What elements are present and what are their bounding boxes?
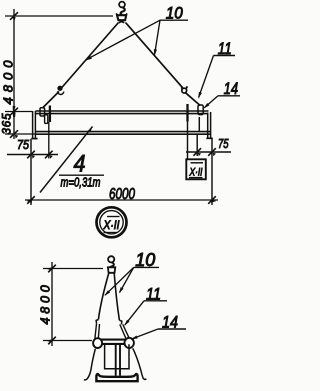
sling 10 right leg lower (top figure) <box>185 92 200 105</box>
sling block horn right <box>126 13 127 15</box>
I-beam section: web <box>115 344 117 376</box>
tick 75 right b <box>208 148 216 156</box>
sling wrap roller right (section) <box>125 338 134 348</box>
section mark tick right (bold) <box>186 104 188 122</box>
lifting lug left <box>40 108 45 116</box>
callout 14 (section): leader <box>131 329 158 339</box>
wire: extension from left lug down <box>48 122 50 159</box>
sling 10 right leg upper (top figure) <box>126 23 184 89</box>
beam bottom flange line upper <box>36 131 212 133</box>
svg-text:75: 75 <box>17 137 30 152</box>
wire: vertical dimension line left <box>13 9 15 139</box>
node: tick at 4800/365 boundary <box>10 108 18 116</box>
callout 10 (section): leader to left leg <box>105 267 134 295</box>
svg-text:4: 4 <box>74 151 86 178</box>
tick 75 right a <box>193 148 201 156</box>
svg-text:X·II: X·II <box>103 218 120 232</box>
svg-text:4800: 4800 <box>39 281 53 324</box>
sling 10 left leg upper (top figure) <box>61 23 119 89</box>
sling free end right (section) <box>133 348 147 379</box>
node: tick 4800 bottom (section) <box>48 337 56 345</box>
callout 14 (top figure): shelf <box>218 95 240 97</box>
crane hook (top figure) <box>121 7 125 14</box>
callout 11 (section): leader <box>125 301 144 325</box>
svg-text:m=0,31т: m=0,31т <box>61 175 101 190</box>
sling strap around web (section) <box>105 344 129 369</box>
callout 10 (top figure): leader to left sling <box>86 20 160 60</box>
node flag XII (boxed) <box>186 159 206 179</box>
coupling notch right (section) <box>119 320 121 324</box>
section label X-II in circle <box>97 207 127 237</box>
sling loop left lower (section, double line) <box>95 324 97 339</box>
callout 11 (top figure): leader <box>199 56 214 98</box>
coupling notch left (section) <box>96 320 98 324</box>
callout 14 (top figure): leader <box>204 96 218 108</box>
beam top flange line upper <box>36 110 209 112</box>
wire: vertical dimension line (section view) <box>51 262 53 346</box>
callout 10 (section): leader to right leg <box>120 267 134 292</box>
dimension 75 left: line <box>7 154 58 156</box>
stiffener right <box>198 117 200 131</box>
crane hook ring (top figure) <box>119 2 125 8</box>
I-beam section: top flange <box>101 340 133 344</box>
sling 10 left leg lower (top figure) <box>43 92 60 109</box>
svg-text:75: 75 <box>218 136 229 151</box>
node: tick at 4800 top <box>10 12 18 20</box>
svg-text:14: 14 <box>224 79 239 98</box>
svg-text:6000: 6000 <box>109 186 135 203</box>
svg-text:14: 14 <box>162 313 178 332</box>
crane hook (section) <box>110 262 114 269</box>
wire: extension line beam bottom <box>5 133 35 135</box>
wire: extension right end plate down to 6000 line <box>211 138 213 205</box>
node: arrow marks at dim intersections <box>13 17 16 22</box>
coupling link 11 left (top figure) <box>58 86 62 90</box>
sling 10 left leg upper (section) <box>98 273 108 320</box>
crane hook ring (section) <box>108 256 114 262</box>
wire: extension line top (section view) <box>43 268 103 270</box>
wire: extension left end plate down to 6000 line <box>30 139 32 205</box>
callout 4 (beam): leader <box>40 127 93 193</box>
sling block lower links <box>119 20 125 22</box>
sling loop right lower (section, double line) <box>120 324 126 338</box>
callout 11 (section): shelf <box>144 300 167 302</box>
svg-text:10: 10 <box>135 250 155 270</box>
coupling link 11 right (top figure) <box>182 88 187 93</box>
sling master link block (top figure) <box>117 15 126 20</box>
beam bottom flange line lower <box>36 133 212 135</box>
callout 10 (top figure): leader to right sling <box>155 20 160 54</box>
svg-text:11: 11 <box>146 286 161 304</box>
wire: extension from right lug down <box>196 135 198 157</box>
tick 75 left b <box>45 151 53 159</box>
section mark tick left (bold) <box>49 106 51 123</box>
I-beam section: bottom flange <box>96 374 137 381</box>
wire: top dimension extension line <box>5 15 113 17</box>
beam left end plate <box>32 111 34 138</box>
stiffener left (small pill below lug) <box>45 115 48 124</box>
node: tick 4800 top (section) <box>48 265 56 273</box>
sling wrap roller left (section) <box>93 338 102 348</box>
sling block horn left <box>116 13 117 15</box>
callout 10 (top figure): shelf <box>160 19 189 21</box>
tick 75 left a <box>27 151 35 159</box>
dimension 75 right: line <box>186 151 231 153</box>
callout 11 (top figure): shelf <box>214 55 236 57</box>
beam right end plate <box>207 113 209 139</box>
tick 6000 right <box>208 196 216 204</box>
svg-text:10: 10 <box>166 4 184 22</box>
wire: extension line bottom (section view) <box>43 340 92 342</box>
node: tick at 365 bottom <box>10 130 18 138</box>
svg-text:365: 365 <box>2 113 14 135</box>
sling free end left (section) <box>84 349 95 380</box>
sling master link block (section) <box>108 267 115 273</box>
callout 14 (section): shelf <box>158 328 186 330</box>
callout 10 (section): shelf <box>134 266 159 268</box>
wire: extension below right tick <box>187 122 189 161</box>
callout 4: shelf <box>59 174 104 176</box>
tick 6000 left <box>27 196 35 204</box>
sling 10 right leg upper (section) <box>114 273 119 320</box>
wire: extension line beam top <box>5 111 32 113</box>
beam top flange line lower <box>36 113 209 115</box>
svg-text:11: 11 <box>218 40 232 58</box>
lifting lug right <box>198 105 203 115</box>
svg-text:X·II: X·II <box>189 167 203 179</box>
svg-text:4800: 4800 <box>1 56 16 105</box>
dimension 6000: line <box>25 199 218 201</box>
